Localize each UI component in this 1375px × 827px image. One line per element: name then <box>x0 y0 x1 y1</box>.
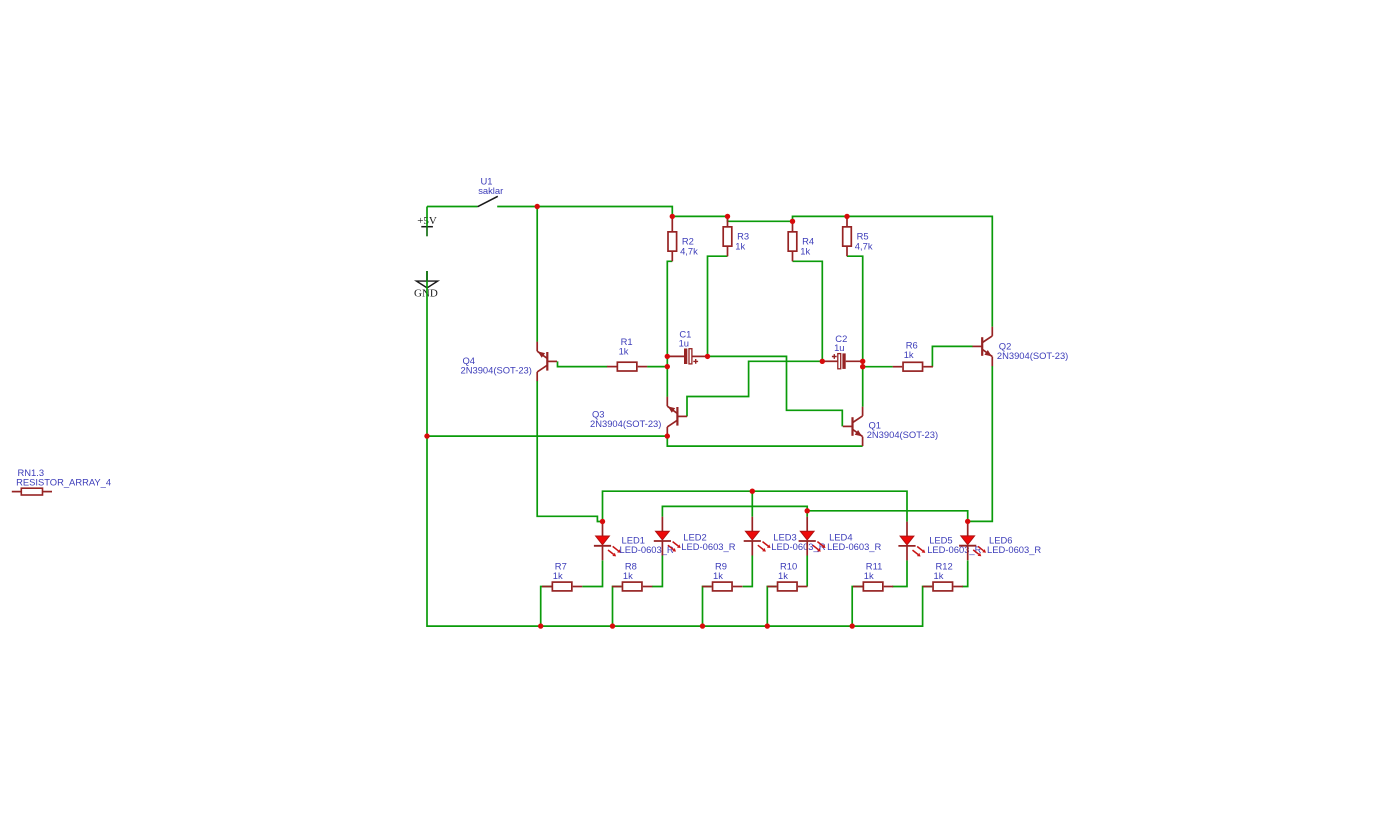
wire R3 bottom to node C <box>708 256 728 356</box>
svg-text:1k: 1k <box>864 570 874 581</box>
resistor R11 <box>853 560 893 590</box>
wire R7 to bottom rail <box>541 587 552 627</box>
LED LED2 <box>654 517 736 556</box>
wire switch to junction A <box>497 207 672 217</box>
ground GND supply symbol <box>414 281 438 299</box>
capacitor C2 <box>822 333 862 369</box>
svg-text:LED-0603_R: LED-0603_R <box>681 541 735 552</box>
svg-text:1k: 1k <box>713 570 723 581</box>
LED LED3 <box>744 517 826 556</box>
wire LED odd bus <box>603 491 908 521</box>
svg-text:1k: 1k <box>904 349 914 360</box>
ground GND pin <box>426 271 428 281</box>
svg-text:2N3904(SOT-23): 2N3904(SOT-23) <box>461 365 532 376</box>
wire Q4 base to R1 <box>558 361 608 366</box>
wire LED2 cathode to R8 <box>652 556 663 587</box>
wire top rail jog R4 to R5 <box>793 216 848 221</box>
svg-text:4,7k: 4,7k <box>855 241 873 252</box>
wire top rail jog R3 to R4 <box>728 216 793 221</box>
resistor R3 <box>723 216 749 256</box>
wire left rail to Q3 emitter node <box>427 435 667 437</box>
wire LED even bus <box>662 506 807 516</box>
wire LED3 cathode to R9 <box>743 556 753 587</box>
LED LED6 <box>959 521 1041 560</box>
wire +5V to switch <box>427 206 478 208</box>
svg-text:GND: GND <box>414 287 438 299</box>
svg-text:1k: 1k <box>553 570 563 581</box>
resistor R4 <box>788 221 814 261</box>
resistor R8 <box>612 560 652 590</box>
resistor R10 <box>767 560 807 590</box>
transistor Q1 <box>843 407 938 446</box>
capacitor C1 <box>667 328 707 364</box>
wire LED5 cathode to R11 <box>892 560 907 586</box>
svg-text:2N3904(SOT-23): 2N3904(SOT-23) <box>867 429 938 440</box>
svg-text:1k: 1k <box>778 570 788 581</box>
svg-text:2N3904(SOT-23): 2N3904(SOT-23) <box>590 418 661 429</box>
svg-text:1u: 1u <box>834 342 844 353</box>
wire bus to LED6 node <box>807 511 968 522</box>
wire R2 bottom to node B <box>667 261 672 397</box>
transistor Q3 <box>590 397 687 436</box>
LED LED4 <box>799 517 882 556</box>
wire R5 bottom to node E <box>847 256 863 407</box>
svg-text:1k: 1k <box>800 246 810 257</box>
resistor R5 <box>843 216 873 256</box>
resistor R12 <box>923 560 963 590</box>
power +5V pin <box>426 207 428 237</box>
power +5V supply symbol <box>417 215 437 227</box>
wire node C to Q1 base <box>708 356 843 426</box>
wire R4 bottom to node D <box>793 261 823 361</box>
transistor Q4 <box>461 342 558 381</box>
resistor R2 <box>668 216 698 261</box>
svg-text:saklar: saklar <box>478 185 503 196</box>
wire R11 to bottom rail <box>852 587 862 627</box>
resistor R1 <box>607 336 647 371</box>
resistor-array RN1.3 <box>12 467 111 495</box>
wire LED6 cathode to R12 <box>962 560 968 586</box>
wire R6 to Q2 base <box>932 346 972 366</box>
svg-text:1k: 1k <box>623 570 633 581</box>
wire R9 to bottom rail <box>703 587 712 627</box>
transistor Q2 <box>973 327 1069 366</box>
svg-text:LED-0603_R: LED-0603_R <box>987 544 1041 555</box>
wire LED4 cathode to R10 <box>806 556 808 587</box>
resistor R6 <box>893 340 933 371</box>
wire Q4 emitter to LED1 node <box>537 381 602 522</box>
resistor R7 <box>542 560 582 590</box>
wire junction A down to Q4 collector <box>536 207 538 342</box>
wire GND rail down and bottom rail <box>427 271 932 626</box>
wire Q3 base to node D <box>687 361 822 416</box>
wire Q3 emitter to Q1 emitter <box>667 436 862 446</box>
svg-text:LED-0603_R: LED-0603_R <box>827 541 881 552</box>
wire R1 to node B <box>647 366 667 368</box>
wire R10 to bottom rail <box>767 587 776 627</box>
wire node E to R6 <box>863 366 893 368</box>
svg-text:4,7k: 4,7k <box>680 246 698 257</box>
LED LED5 <box>898 522 981 561</box>
svg-text:2N3904(SOT-23): 2N3904(SOT-23) <box>997 350 1068 361</box>
LED LED1 <box>594 522 674 561</box>
svg-text:LED-0603_R: LED-0603_R <box>620 544 674 555</box>
svg-text:1u: 1u <box>679 337 689 348</box>
wire R8 to bottom rail <box>613 587 622 627</box>
wire LED6 node to Q2 emitter <box>968 366 993 521</box>
switch U1 saklar <box>478 175 504 206</box>
junction dots <box>424 204 970 629</box>
resistor R9 <box>702 560 742 590</box>
wire top rail R2 to R3 <box>672 215 727 217</box>
svg-text:1k: 1k <box>619 346 629 357</box>
wire top rail R5 to Q2 collector <box>847 216 992 326</box>
wire LED1 cathode to R7 <box>582 560 602 586</box>
svg-text:1k: 1k <box>735 241 745 252</box>
svg-text:1k: 1k <box>934 570 944 581</box>
wire bus to LED3 <box>751 491 753 517</box>
svg-text:RESISTOR_ARRAY_4: RESISTOR_ARRAY_4 <box>16 476 111 487</box>
